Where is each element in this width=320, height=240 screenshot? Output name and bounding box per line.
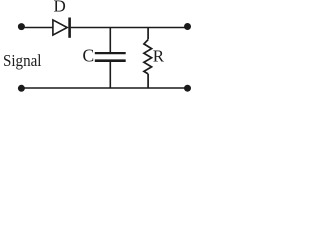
node OUT (top-right terminal) [184,23,191,30]
svg-text:Signal: Signal [3,51,42,70]
node common (bottom-left terminal) [18,85,25,92]
resistor R [144,40,152,74]
wire resistor top stub [147,28,149,40]
wire top (diode cathode to top-right terminal) [71,27,188,29]
capacitor C [95,53,126,61]
wire resistor bottom stub [147,74,149,88]
wire capacitor bottom stub [109,61,111,88]
node common (bottom-right terminal) [184,85,191,92]
wire top-left (terminal to diode anode) [21,27,53,29]
svg-text:R: R [153,47,165,66]
wire capacitor top stub [109,28,111,53]
svg-text:D: D [54,0,66,16]
wire bottom (common rail) [21,87,187,89]
svg-text:C: C [83,45,95,65]
diode D [53,18,70,38]
node IN (top-left terminal) [18,23,25,30]
